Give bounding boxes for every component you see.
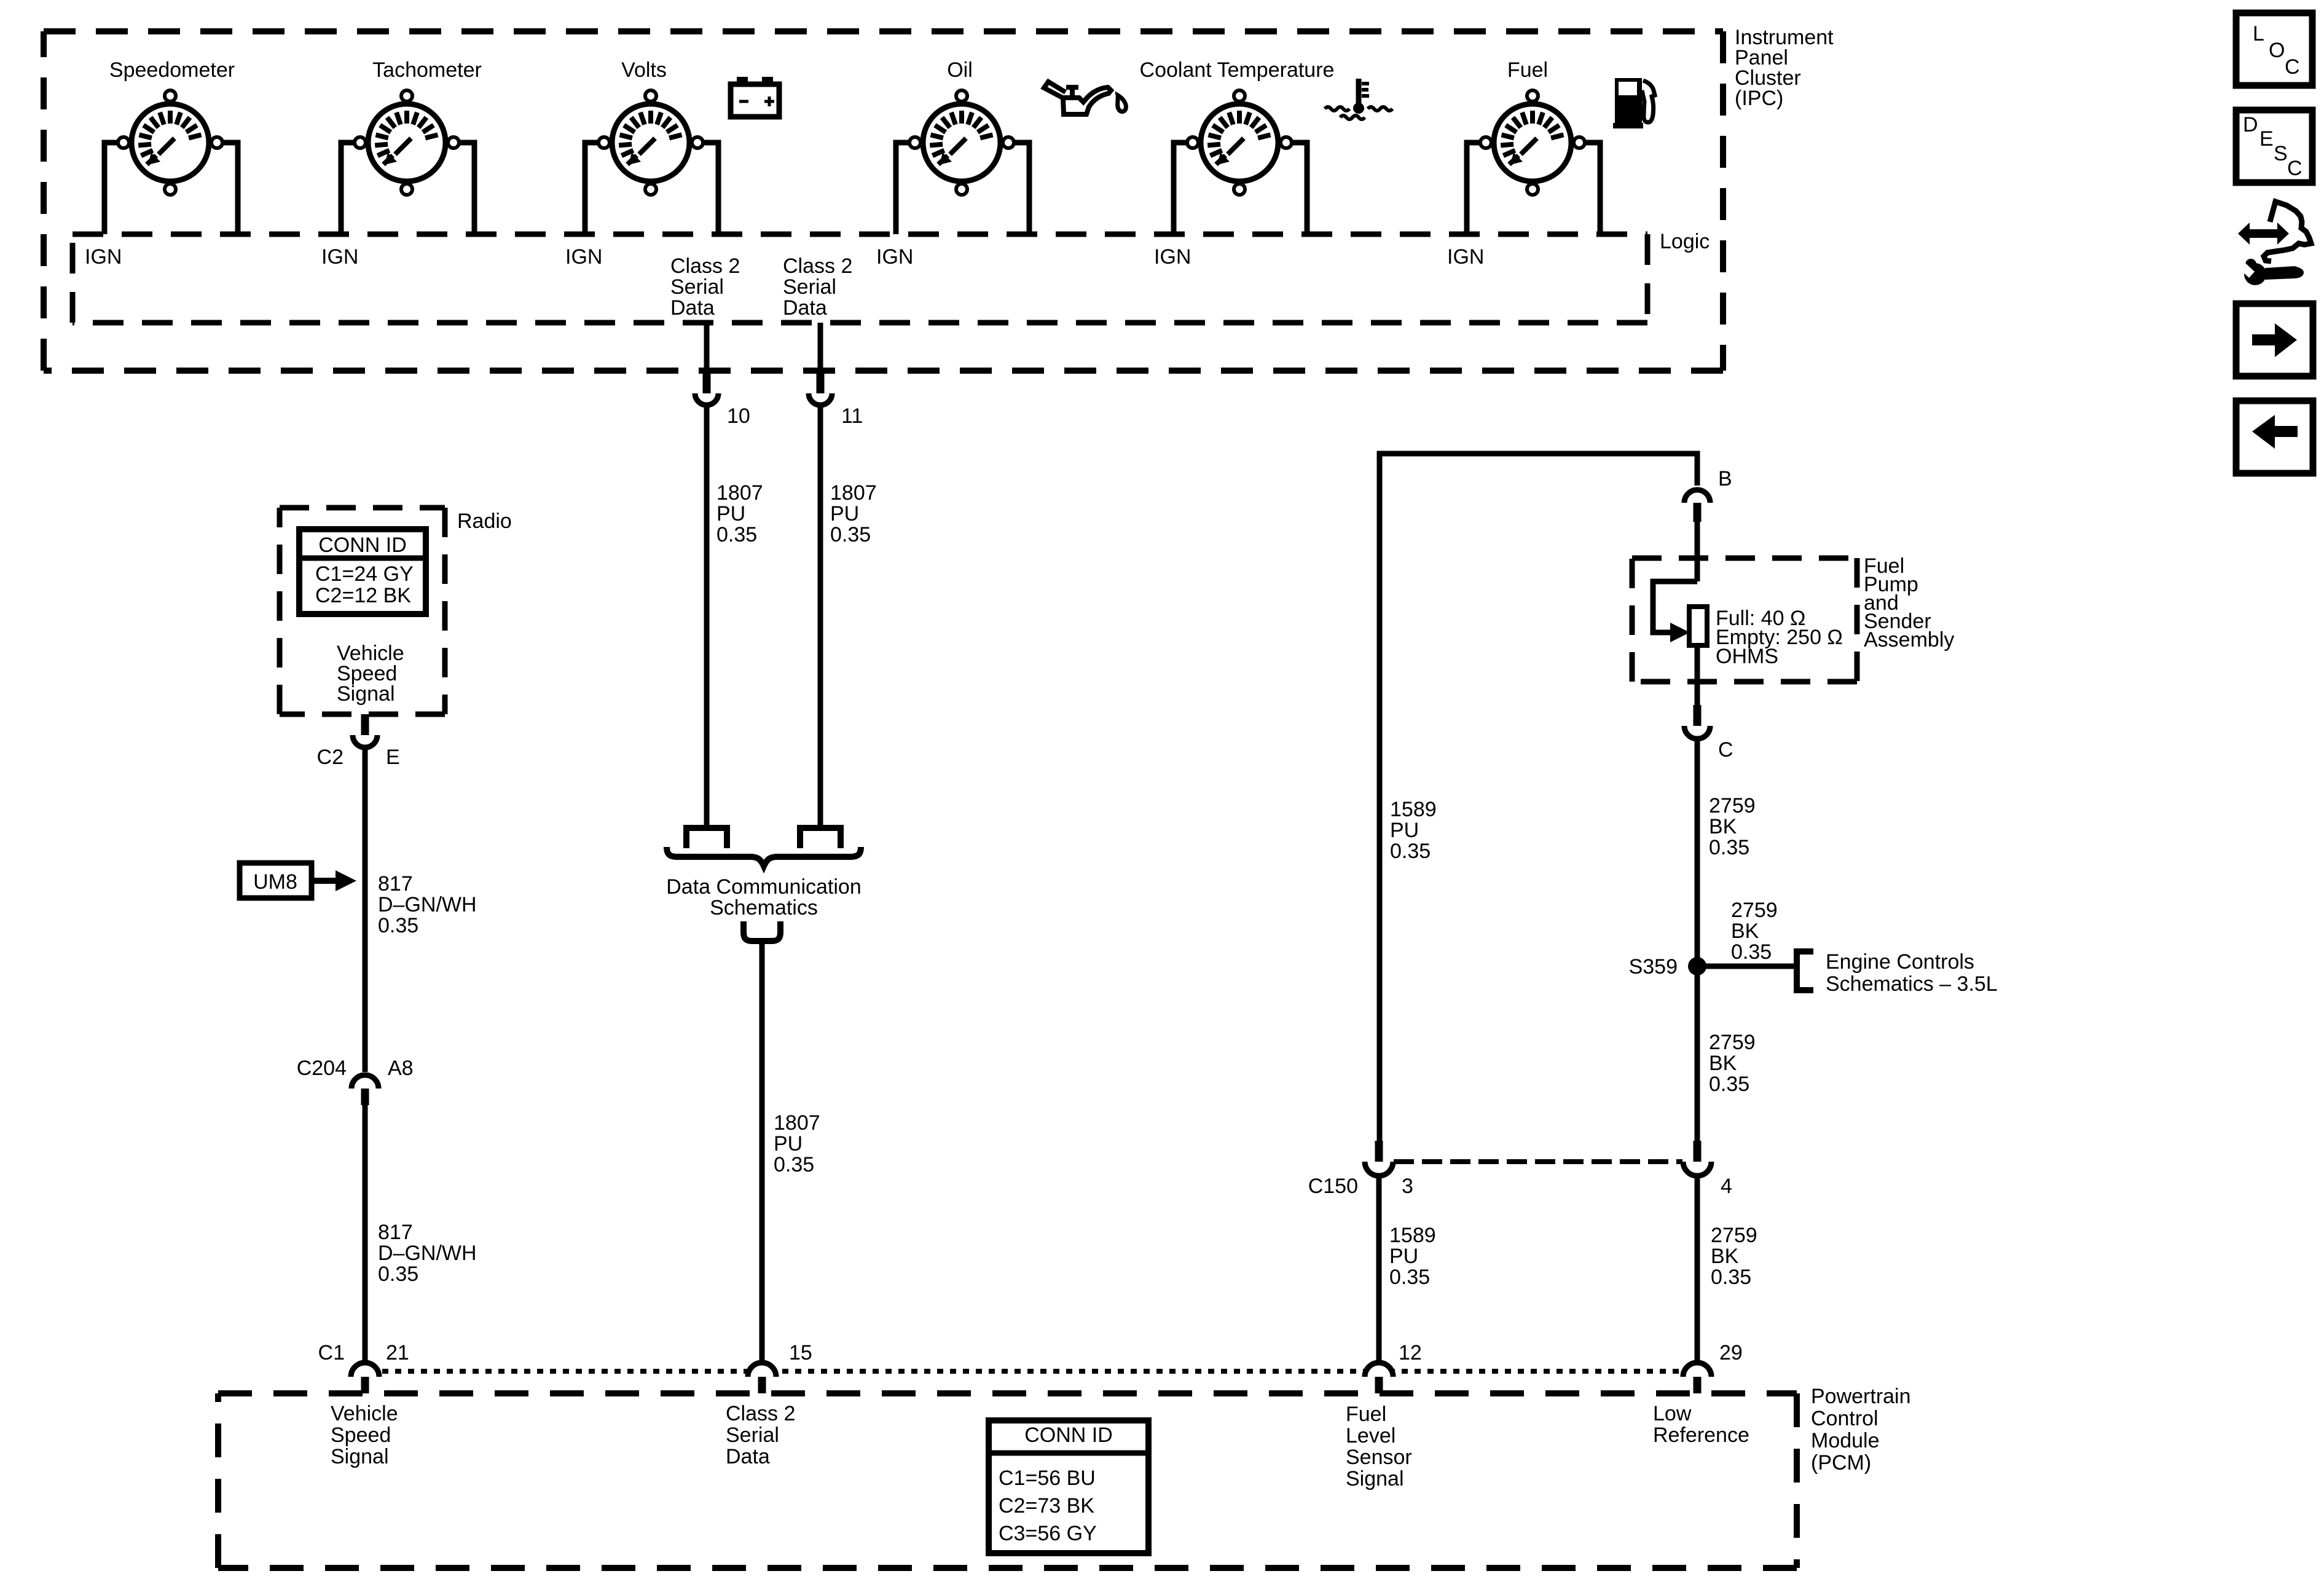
connector pin 10 terminal [695,369,718,405]
svg-text:Class 2: Class 2 [783,254,852,278]
svg-text:D–GN/WH: D–GN/WH [378,1242,477,1265]
wires of Volts gauge [585,143,718,234]
wires of Tachometer gauge [341,143,474,234]
svg-text:2759: 2759 [1711,1224,1757,1247]
wire label 817 D-GN/WH 0.35 (lower) [378,1221,477,1286]
wire label 1807 PU 0.35 (pin 10) [716,481,763,546]
Engine Controls Schematics label [1826,950,1998,996]
wire 1807 PU (pin 11 down) [818,407,823,825]
wire resistor to connector C [1695,645,1700,705]
svg-text:Schematics: Schematics [710,896,818,919]
oil can icon [1044,82,1126,114]
svg-text:2759: 2759 [1731,899,1778,922]
svg-text:10: 10 [727,404,750,428]
connector PCM pin 12 [1365,1363,1393,1393]
UM8 arrow [313,870,356,891]
svg-text:Logic: Logic [1660,230,1710,253]
svg-text:Signal: Signal [337,682,395,706]
svg-text:C2: C2 [317,746,343,769]
svg-text:0.35: 0.35 [1731,940,1772,964]
svg-text:3: 3 [1402,1175,1413,1198]
svg-text:0.35: 0.35 [378,1262,418,1286]
connector C150 pin 4 [1683,1141,1711,1176]
svg-text:1807: 1807 [774,1111,820,1135]
svg-text:Class 2: Class 2 [670,254,740,278]
C150 connector labels [1308,1175,1732,1198]
connector labels C204 and A8 [297,1057,414,1080]
wire label 2759 BK 0.35 (below C) [1709,794,1756,859]
svg-text:1589: 1589 [1390,798,1437,821]
Class 2 Serial Data label (pin 10) [670,254,740,320]
svg-text:0.35: 0.35 [1709,1073,1749,1096]
svg-text:IGN: IGN [321,245,358,269]
svg-text:0.35: 0.35 [774,1153,814,1176]
gauge Coolant Temperature [1187,90,1292,195]
svg-text:BK: BK [1711,1245,1739,1268]
IGN pin label [876,245,913,269]
resistor (fuel level sender) [1689,607,1707,645]
gauge Oil [909,90,1014,195]
svg-text:C: C [2285,55,2300,79]
svg-text:OHMS: OHMS [1716,645,1778,668]
svg-text:1589: 1589 [1389,1224,1436,1247]
PCM connector face dotted line [382,1369,1679,1374]
wire label 2759 BK 0.35 (below S359) [1709,1031,1756,1096]
svg-text:0.35: 0.35 [830,523,871,546]
gauge Tachometer [355,90,459,195]
svg-text:0.35: 0.35 [1390,840,1431,863]
wire label 1589 PU 0.35 (lower) [1389,1224,1436,1289]
svg-text:Tachometer: Tachometer [372,58,482,82]
svg-text:PU: PU [716,502,745,526]
svg-text:S359: S359 [1629,955,1678,979]
svg-text:Oil: Oil [947,58,973,82]
diagnostic icon (double arrow, outline, wrench) [2238,202,2311,285]
wires of Fuel gauge [1467,143,1600,234]
wire 817 (radio to C204) [363,749,368,1072]
svg-text:0.35: 0.35 [378,914,418,937]
svg-text:Data: Data [670,296,715,320]
LOC icon box [2236,13,2312,85]
svg-text:Speedometer: Speedometer [109,58,235,82]
svg-text:Class 2: Class 2 [726,1402,795,1425]
engine controls off-page bracket [1797,951,1813,990]
svg-text:15: 15 [789,1341,812,1364]
svg-text:C3=56 GY: C3=56 GY [999,1522,1097,1545]
svg-text:CONN ID: CONN ID [1024,1423,1113,1447]
svg-text:0.35: 0.35 [1709,836,1749,859]
PCM pin label 15 [789,1341,812,1364]
svg-text:Coolant Temperature: Coolant Temperature [1140,58,1335,82]
Speedometer label [109,58,235,82]
wire label 1589 PU 0.35 (upper) [1390,798,1437,863]
connector label C [1718,738,1733,762]
IGN pin label [1154,245,1191,269]
svg-text:29: 29 [1719,1341,1743,1364]
svg-text:PU: PU [1389,1245,1418,1268]
svg-text:PU: PU [830,502,859,526]
Vehicle Speed Signal label (radio) [337,642,404,706]
svg-text:B: B [1718,467,1732,490]
wire pin 10 (IPC to connector) [704,323,710,369]
battery icon [731,77,779,117]
svg-text:Low: Low [1653,1402,1692,1425]
svg-text:Control: Control [1811,1407,1878,1430]
Radio dashed box [280,508,445,714]
svg-text:Volts: Volts [621,58,667,82]
wire label 1807 PU 0.35 (PCM 15) [774,1111,820,1176]
svg-text:Powertrain: Powertrain [1811,1385,1911,1408]
svg-text:1807: 1807 [716,481,763,505]
connector C150 pin 3 [1365,1141,1393,1176]
Fuel Level Sensor Signal label (PCM) [1346,1403,1412,1490]
svg-text:Data: Data [783,296,827,320]
wire 2759 BK (C to S359) [1695,739,1700,966]
svg-text:IGN: IGN [1154,245,1191,269]
svg-text:0.35: 0.35 [716,523,757,546]
svg-text:L: L [2253,22,2264,45]
svg-text:IGN: IGN [85,245,122,269]
IPC label [1735,26,1834,110]
brace (data communication group) [667,847,861,866]
svg-text:BK: BK [1731,919,1759,943]
svg-text:4: 4 [1721,1175,1732,1198]
svg-text:O: O [2269,39,2285,62]
wire 1589 PU (C150 to PCM 12) [1376,1178,1382,1361]
wire 2759 BK (C150 to PCM 29) [1695,1178,1700,1361]
svg-text:2759: 2759 [1709,794,1756,817]
fuel sender wiper wire and arrow [1653,581,1697,642]
wire label 1807 PU 0.35 (pin 11) [830,481,877,546]
wire label 817 D-GN/WH 0.35 (upper) [378,872,477,937]
connector PCM pin 15 [748,1363,776,1393]
svg-text:Schematics – 3.5L: Schematics – 3.5L [1826,972,1998,996]
svg-text:Signal: Signal [1346,1467,1404,1490]
svg-text:817: 817 [378,872,413,896]
svg-text:C150: C150 [1308,1175,1358,1198]
PCM label [1811,1385,1911,1475]
svg-text:C2=12 BK: C2=12 BK [315,584,411,607]
Vehicle Speed Signal label (PCM) [331,1402,398,1468]
Volts label [621,58,667,82]
Fuel Pump and Sender Assembly label [1864,554,1954,652]
svg-text:C1=56 BU: C1=56 BU [999,1467,1096,1490]
wire 1807 PU (to PCM pin 15) [760,941,765,1361]
wire 1807 PU (pin 10 down) [704,407,710,825]
IGN pin label [565,245,602,269]
svg-text:D–GN/WH: D–GN/WH [378,893,477,916]
PCM CONN ID table [989,1420,1148,1553]
off-page connector (pin 11 wire) [800,828,841,848]
svg-text:BK: BK [1709,1052,1737,1075]
Logic label [1660,230,1710,253]
svg-text:Assembly: Assembly [1864,628,1954,652]
Powertrain Control Module (PCM) dashed box [218,1393,1797,1568]
svg-text:Serial: Serial [670,275,724,299]
svg-text:(IPC): (IPC) [1735,87,1783,110]
PCM pin labels C1 21 [318,1341,409,1364]
connector B [1684,490,1710,522]
connector C2/E terminal (radio output) [353,714,377,747]
svg-text:C204: C204 [297,1057,347,1080]
svg-text:12: 12 [1399,1341,1422,1364]
Coolant Temperature label [1140,58,1335,82]
gauge Fuel [1480,90,1585,195]
svg-text:(PCM): (PCM) [1811,1451,1871,1475]
svg-text:C1: C1 [318,1341,345,1364]
off-page connector (pin 10 wire) [686,828,727,848]
splice S359 [1629,955,1706,979]
svg-text:Engine Controls: Engine Controls [1826,950,1974,974]
svg-text:D: D [2243,113,2258,136]
next-page arrow icon box [2236,304,2313,376]
wire S359 branch to engine controls [1697,964,1796,969]
svg-text:Serial: Serial [783,275,836,299]
svg-text:Data Communication: Data Communication [666,875,861,899]
Radio label [457,510,512,533]
svg-text:Module: Module [1811,1429,1880,1452]
wire fuel level top run [1380,454,1697,1141]
svg-text:Data: Data [726,1445,770,1468]
svg-text:Level: Level [1346,1424,1396,1447]
connector labels C2 and E [317,746,400,769]
Data Communication Schematics label [666,875,861,919]
IGN pin label [85,245,122,269]
svg-text:Fuel: Fuel [1507,58,1548,82]
svg-text:S: S [2274,142,2288,165]
resistor value label [1716,607,1843,668]
previous-page arrow icon box [2236,401,2313,473]
connector PCM C1 pin 21 [351,1363,379,1393]
wire into fuel pump assembly [1695,522,1700,581]
svg-text:0.35: 0.35 [1389,1266,1430,1289]
svg-text:IGN: IGN [876,245,913,269]
wires of Coolant Temperature gauge [1174,143,1307,234]
svg-text:UM8: UM8 [253,870,297,894]
fuel pump icon [1613,78,1655,128]
svg-text:Speed: Speed [331,1423,391,1447]
wires of Oil gauge [896,143,1029,234]
wire label 2759 BK 0.35 (lower) [1711,1224,1757,1289]
connector C204/A8 [351,1075,379,1105]
UM8 option tag box [240,863,312,898]
connector C [1684,705,1710,739]
C150 dashed connector line [1394,1159,1682,1164]
wires of Speedometer gauge [104,143,238,234]
PCM pin label 29 [1719,1341,1743,1364]
PCM pin label 12 [1399,1341,1422,1364]
Radio CONN ID table [299,529,426,614]
svg-text:11: 11 [841,404,863,428]
Tachometer label [372,58,482,82]
svg-text:E: E [386,746,400,769]
wire pin 11 (IPC to connector) [818,323,823,369]
svg-text:IGN: IGN [1447,245,1484,269]
off-page connector (to data communication schematics) [744,921,780,941]
pin 11 label [841,404,863,428]
svg-text:Signal: Signal [331,1445,389,1468]
IGN pin label [321,245,358,269]
Logic dashed box (IPC internal logic) [73,234,1647,323]
gauge Speedometer [118,90,222,195]
svg-text:CONN ID: CONN ID [318,534,407,557]
svg-text:E: E [2259,127,2274,151]
connector pin 11 terminal [809,369,832,405]
svg-text:Fuel: Fuel [1346,1403,1386,1426]
coolant temperature icon [1325,79,1392,119]
svg-text:A8: A8 [388,1057,414,1080]
IGN pin label [1447,245,1484,269]
Instrument Panel Cluster (IPC) dashed box [44,31,1723,371]
wire label 2759 BK 0.35 (above S359) [1731,899,1778,964]
svg-text:C: C [2287,157,2302,180]
Class 2 Serial Data label (PCM) [726,1402,795,1468]
svg-text:817: 817 [378,1221,413,1244]
svg-text:Vehicle: Vehicle [331,1402,398,1425]
Fuel Pump and Sender Assembly dashed box [1632,558,1857,682]
connector label B [1718,467,1732,490]
svg-text:Reference: Reference [1653,1423,1749,1447]
svg-text:2759: 2759 [1709,1031,1756,1054]
svg-text:0.35: 0.35 [1711,1266,1751,1289]
svg-text:IGN: IGN [565,245,602,269]
svg-text:PU: PU [774,1132,803,1156]
svg-text:1807: 1807 [830,481,877,505]
connector PCM pin 29 [1683,1363,1711,1393]
svg-text:C1=24 GY: C1=24 GY [315,562,414,586]
gauge Volts [599,90,703,195]
pin 10 label [727,404,750,428]
svg-text:PU: PU [1390,819,1419,842]
Class 2 Serial Data label (pin 11) [783,254,852,320]
svg-text:C2=73 BK: C2=73 BK [999,1494,1094,1518]
Low Reference label (PCM) [1653,1402,1749,1447]
svg-text:BK: BK [1709,815,1737,838]
wire 2759 BK (S359 to C150) [1695,975,1700,1141]
Fuel label [1507,58,1548,82]
wire 817 (C204 to PCM) [363,1105,368,1361]
svg-text:Serial: Serial [726,1423,779,1447]
Oil label [947,58,973,82]
svg-text:C: C [1718,738,1733,762]
DESC icon box [2236,110,2312,183]
svg-text:Radio: Radio [457,510,512,533]
svg-text:Sensor: Sensor [1346,1446,1412,1469]
svg-text:21: 21 [386,1341,409,1364]
